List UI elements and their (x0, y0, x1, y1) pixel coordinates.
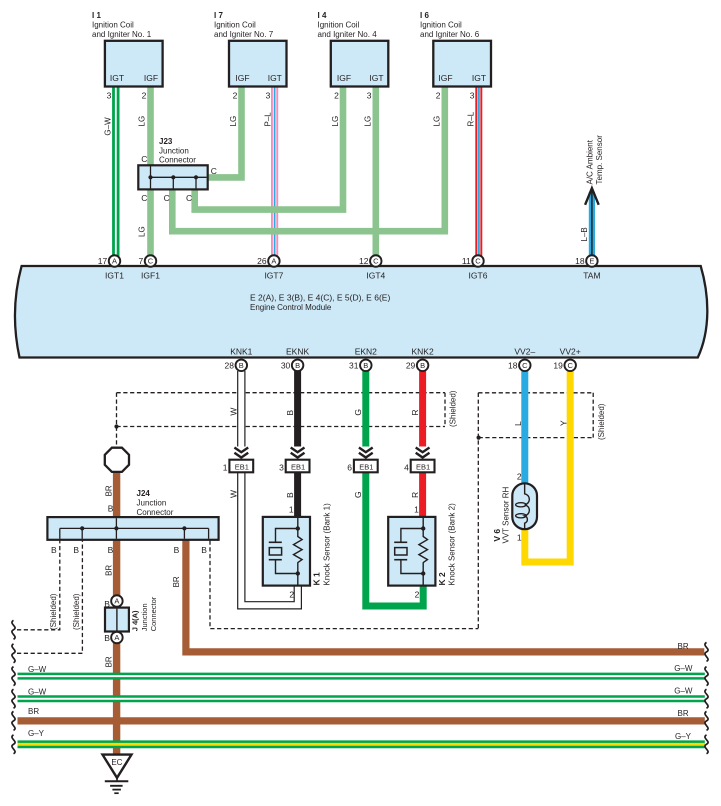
svg-text:VVT Sensor RH: VVT Sensor RH (502, 487, 511, 544)
svg-text:3: 3 (266, 91, 271, 101)
svg-text:IGF: IGF (438, 73, 452, 83)
svg-text:I 4: I 4 (318, 11, 327, 20)
svg-text:2: 2 (436, 91, 441, 101)
svg-text:Ignition Coil: Ignition Coil (420, 21, 462, 30)
svg-text:LG: LG (137, 116, 146, 127)
svg-text:Y: Y (558, 420, 568, 426)
svg-text:IGF: IGF (235, 73, 249, 83)
svg-text:Ignition Coil: Ignition Coil (92, 21, 134, 30)
svg-text:W: W (229, 408, 239, 416)
svg-text:G–Y: G–Y (28, 729, 45, 738)
svg-text:(Shielded): (Shielded) (448, 390, 457, 427)
svg-text:B: B (285, 492, 295, 498)
svg-text:3: 3 (470, 91, 475, 101)
svg-text:KNK1: KNK1 (230, 347, 252, 357)
svg-text:G–W: G–W (104, 117, 113, 136)
svg-text:31: 31 (349, 361, 359, 371)
svg-text:LG: LG (364, 116, 373, 127)
svg-text:BR: BR (678, 709, 689, 718)
svg-text:IGT4: IGT4 (366, 271, 385, 281)
svg-text:2: 2 (233, 91, 238, 101)
svg-text:19: 19 (553, 361, 563, 371)
svg-text:EB1: EB1 (359, 462, 373, 471)
svg-text:R: R (410, 492, 420, 498)
svg-text:R–L: R–L (467, 111, 476, 126)
svg-text:B: B (363, 361, 368, 370)
svg-text:1: 1 (517, 532, 522, 542)
svg-text:I 7: I 7 (214, 11, 223, 20)
svg-text:G–Y: G–Y (675, 732, 692, 741)
svg-text:A: A (114, 633, 119, 642)
svg-text:18: 18 (508, 361, 518, 371)
svg-text:EKNK: EKNK (286, 347, 309, 357)
svg-text:3: 3 (279, 462, 284, 472)
svg-text:B: B (51, 545, 57, 555)
svg-text:29: 29 (406, 361, 416, 371)
svg-text:EB1: EB1 (235, 462, 249, 471)
svg-text:G–W: G–W (674, 687, 693, 696)
svg-text:IGT6: IGT6 (469, 271, 488, 281)
svg-text:(Shielded): (Shielded) (72, 593, 81, 630)
svg-text:LG: LG (137, 226, 146, 237)
svg-text:3: 3 (107, 91, 112, 101)
svg-text:IGT1: IGT1 (105, 271, 124, 281)
svg-text:Connector: Connector (137, 508, 174, 517)
svg-text:2: 2 (142, 91, 147, 101)
svg-text:B: B (239, 361, 244, 370)
svg-text:BR: BR (678, 642, 689, 651)
svg-text:BR: BR (105, 656, 114, 667)
svg-text:Ignition Coil: Ignition Coil (318, 21, 360, 30)
svg-text:G: G (353, 409, 363, 416)
svg-text:J 4(A): J 4(A) (131, 610, 140, 631)
svg-text:B: B (420, 361, 425, 370)
svg-text:1: 1 (289, 505, 294, 515)
svg-text:17: 17 (98, 256, 108, 266)
svg-text:L–B: L–B (580, 227, 589, 241)
svg-text:Connector: Connector (159, 155, 196, 164)
svg-text:3: 3 (367, 91, 372, 101)
svg-text:K 2: K 2 (437, 572, 447, 586)
svg-text:A: A (271, 257, 276, 266)
svg-text:and Igniter No. 1: and Igniter No. 1 (92, 30, 152, 39)
svg-text:12: 12 (359, 256, 369, 266)
svg-text:Knock Sensor (Bank 1): Knock Sensor (Bank 1) (322, 503, 331, 586)
svg-text:B: B (174, 545, 180, 555)
svg-text:(Shielded): (Shielded) (597, 403, 606, 440)
svg-text:R: R (410, 409, 420, 415)
svg-text:C: C (186, 193, 192, 203)
svg-text:LG: LG (331, 116, 340, 127)
svg-text:1: 1 (414, 505, 419, 515)
svg-text:IGT: IGT (268, 73, 282, 83)
svg-text:Temp. Sensor: Temp. Sensor (595, 135, 604, 185)
svg-text:E 2(A), E 3(B), E 4(C), E 5(D): E 2(A), E 3(B), E 4(C), E 5(D), E 6(E) (250, 292, 390, 302)
svg-text:B: B (201, 545, 207, 555)
svg-text:EB1: EB1 (416, 462, 430, 471)
svg-text:IGF: IGF (337, 73, 351, 83)
svg-text:EB1: EB1 (291, 462, 305, 471)
svg-text:LG: LG (229, 116, 238, 127)
svg-text:J23: J23 (159, 137, 173, 146)
svg-text:V 6: V 6 (492, 529, 502, 542)
svg-text:VV2+: VV2+ (560, 347, 581, 357)
svg-text:K 1: K 1 (312, 572, 322, 586)
svg-text:Junction: Junction (159, 147, 189, 156)
svg-text:and Igniter No. 4: and Igniter No. 4 (318, 30, 378, 39)
svg-text:L: L (513, 421, 523, 426)
svg-text:LG: LG (433, 116, 442, 127)
svg-text:I 6: I 6 (420, 11, 429, 20)
svg-text:IGT: IGT (472, 73, 486, 83)
svg-text:A: A (112, 257, 117, 266)
svg-text:30: 30 (281, 361, 291, 371)
svg-text:28: 28 (225, 361, 235, 371)
svg-text:2: 2 (415, 590, 420, 600)
svg-text:G–W: G–W (28, 665, 47, 674)
svg-text:2: 2 (289, 590, 294, 600)
svg-text:BR: BR (172, 576, 181, 587)
svg-text:TAM: TAM (583, 271, 600, 281)
svg-text:B: B (285, 410, 295, 416)
svg-text:C: C (373, 257, 379, 266)
svg-text:E: E (589, 257, 594, 266)
svg-text:B: B (73, 545, 79, 555)
svg-text:IGF1: IGF1 (141, 271, 160, 281)
svg-text:C: C (475, 257, 481, 266)
svg-text:BR: BR (28, 707, 39, 716)
svg-text:P–L: P–L (263, 112, 272, 127)
svg-text:B: B (104, 599, 110, 609)
svg-text:IGT7: IGT7 (264, 271, 283, 281)
svg-text:G–W: G–W (28, 688, 47, 697)
svg-text:IGF: IGF (144, 73, 158, 83)
svg-text:Junction: Junction (140, 603, 149, 631)
svg-text:and Igniter No. 6: and Igniter No. 6 (420, 30, 480, 39)
svg-text:A: A (114, 597, 119, 606)
svg-text:C: C (211, 166, 217, 176)
svg-text:C: C (567, 361, 573, 370)
svg-text:18: 18 (575, 256, 585, 266)
svg-text:6: 6 (347, 462, 352, 472)
svg-text:EKN2: EKN2 (355, 347, 377, 357)
svg-text:(Shielded): (Shielded) (49, 593, 58, 630)
svg-text:B: B (104, 633, 110, 643)
svg-text:Ignition Coil: Ignition Coil (214, 21, 256, 30)
svg-text:KNK2: KNK2 (411, 347, 433, 357)
svg-text:Knock Sensor (Bank 2): Knock Sensor (Bank 2) (448, 503, 457, 586)
svg-text:C: C (141, 154, 147, 164)
svg-text:C: C (141, 193, 147, 203)
svg-text:G–W: G–W (674, 664, 693, 673)
svg-text:J24: J24 (137, 489, 151, 498)
svg-text:B: B (108, 504, 114, 514)
svg-text:B: B (108, 545, 114, 555)
svg-text:2: 2 (517, 471, 522, 481)
svg-text:G: G (353, 491, 363, 498)
svg-text:Junction: Junction (137, 499, 167, 508)
svg-text:4: 4 (404, 462, 409, 472)
svg-text:IGT: IGT (110, 73, 124, 83)
svg-text:VV2–: VV2– (514, 347, 535, 357)
svg-text:B: B (295, 361, 300, 370)
svg-text:IGT: IGT (369, 73, 383, 83)
svg-text:C: C (164, 193, 170, 203)
svg-text:A/C Ambient: A/C Ambient (586, 139, 595, 184)
svg-text:EC: EC (111, 758, 122, 767)
svg-text:BR: BR (105, 565, 114, 576)
svg-text:Engine Control Module: Engine Control Module (250, 303, 332, 312)
svg-text:1: 1 (223, 462, 228, 472)
svg-text:2: 2 (334, 91, 339, 101)
svg-text:C: C (148, 257, 154, 266)
svg-text:11: 11 (462, 256, 471, 266)
svg-text:7: 7 (138, 256, 143, 266)
svg-text:Connector: Connector (149, 596, 158, 631)
svg-text:W: W (229, 490, 239, 498)
svg-text:I 1: I 1 (92, 11, 101, 20)
svg-text:and Igniter No. 7: and Igniter No. 7 (214, 30, 274, 39)
svg-text:26: 26 (257, 256, 267, 266)
svg-text:BR: BR (105, 485, 114, 496)
svg-text:C: C (522, 361, 528, 370)
